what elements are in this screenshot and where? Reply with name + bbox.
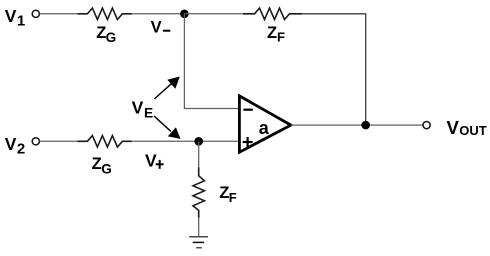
wire V1 to ZG1 bbox=[40, 13, 78, 15]
resistor ZG1 bbox=[78, 8, 133, 45]
wire node Vminus to ZF1 bbox=[184, 13, 243, 15]
arrow VE upper bbox=[154, 77, 180, 100]
svg-text:a: a bbox=[259, 118, 270, 138]
node V+ bbox=[145, 137, 203, 171]
svg-text:1: 1 bbox=[17, 13, 25, 30]
wire node V+ down to ZF2 bbox=[198, 141, 200, 168]
wire ZF1 to right corner bbox=[302, 14, 366, 125]
op-amp U1 bbox=[239, 96, 291, 152]
svg-text:V: V bbox=[151, 19, 162, 37]
ground bbox=[189, 237, 208, 248]
svg-text:F: F bbox=[229, 190, 237, 205]
wire ZG2 to opamp plus input bbox=[132, 140, 240, 142]
resistor ZF1 bbox=[243, 8, 302, 45]
terminal V1 bbox=[5, 6, 40, 30]
svg-text:V: V bbox=[5, 6, 17, 26]
svg-text:V: V bbox=[132, 97, 144, 117]
svg-text:OUT: OUT bbox=[459, 123, 487, 138]
svg-text:F: F bbox=[277, 30, 285, 45]
wire ZF2 to ground bbox=[198, 218, 200, 237]
arrow VE lower bbox=[154, 116, 181, 139]
svg-text:V: V bbox=[447, 117, 460, 138]
svg-text:Z: Z bbox=[267, 23, 277, 42]
resistor ZG2 bbox=[78, 136, 133, 177]
wire ZG1 to node Vminus bbox=[132, 13, 185, 15]
svg-text:E: E bbox=[144, 106, 153, 121]
resistor ZF2 vertical bbox=[193, 168, 237, 219]
node V- bbox=[151, 10, 189, 37]
svg-text:V: V bbox=[5, 134, 17, 154]
svg-text:G: G bbox=[106, 30, 117, 45]
annotation VE label bbox=[132, 97, 154, 120]
terminal V2 bbox=[5, 134, 40, 158]
wire V2 to ZG2 bbox=[40, 140, 78, 142]
node output junction bbox=[361, 121, 370, 130]
wire vertical from node Vminus down bbox=[184, 14, 239, 109]
svg-text:V: V bbox=[145, 151, 157, 171]
svg-text:G: G bbox=[101, 161, 112, 176]
wire opamp output bbox=[291, 124, 423, 126]
terminal VOUT bbox=[423, 117, 487, 138]
svg-text:2: 2 bbox=[17, 140, 25, 157]
